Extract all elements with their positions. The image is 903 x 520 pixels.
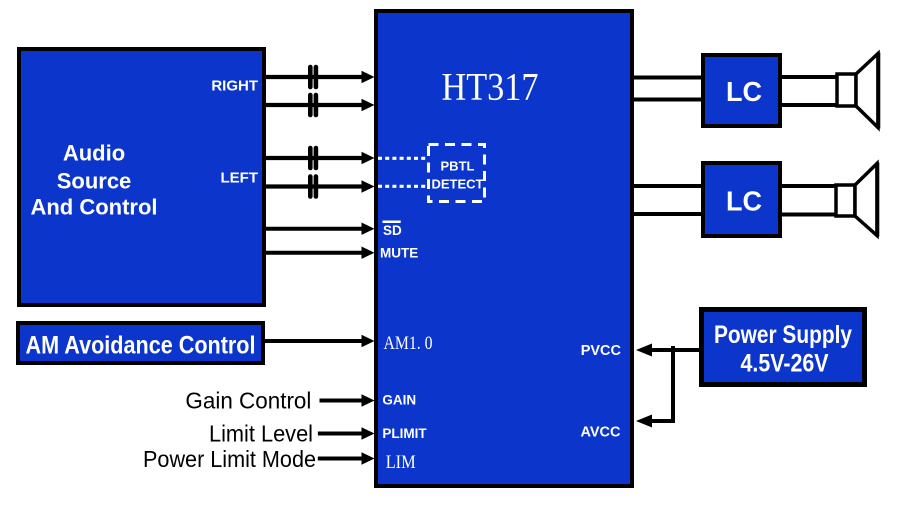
svg-text:AM Avoidance Control: AM Avoidance Control — [26, 332, 256, 360]
pin label MUTE — [380, 246, 418, 261]
block: PBTL DETECT dashed box — [429, 145, 485, 202]
pin label PVCC — [581, 343, 622, 359]
IC U1: HT317 amplifier block — [376, 11, 632, 486]
capacitor: LEFT lower input coupling cap — [310, 177, 316, 197]
wire: power limit mode to LIM pin — [318, 452, 375, 464]
wire: AM avoidance to AM1.0 pin — [263, 335, 375, 347]
svg-text:GAIN: GAIN — [382, 393, 416, 408]
label: Gain Control — [185, 388, 311, 414]
wire: LC2 to speaker upper — [781, 184, 836, 188]
wire: dotted link upper to PBTL detect — [378, 157, 427, 160]
svg-text:LEFT: LEFT — [221, 170, 259, 187]
svg-text:HT317: HT317 — [442, 66, 539, 109]
capacitor: RIGHT lower input coupling cap — [310, 95, 316, 115]
svg-text:DETECT: DETECT — [432, 177, 484, 192]
svg-text:AVCC: AVCC — [580, 425, 621, 441]
svg-text:SD: SD — [383, 223, 402, 238]
block: LC filter 2 — [703, 163, 780, 236]
speaker 2 — [836, 163, 877, 237]
svg-text:RIGHT: RIGHT — [211, 77, 258, 94]
wire: LC1 to speaker upper — [781, 75, 837, 79]
label LEFT — [221, 170, 259, 187]
svg-text:PLIMIT: PLIMIT — [382, 426, 427, 441]
wire: HT317 to LC2 upper — [632, 184, 703, 188]
wire: LEFT channel input upper — [264, 152, 375, 164]
svg-text:Limit Level: Limit Level — [209, 421, 313, 447]
svg-text:LIM: LIM — [386, 453, 416, 473]
pin label SD with overline — [383, 222, 403, 238]
pin label LIM — [386, 453, 416, 473]
capacitor: LEFT upper input coupling cap — [310, 148, 316, 168]
svg-text:PVCC: PVCC — [581, 343, 622, 359]
pin label AVCC — [580, 425, 621, 441]
wire: gain control to GAIN pin — [320, 394, 375, 406]
wire: RIGHT channel input lower — [264, 99, 375, 111]
svg-text:Power Supply: Power Supply — [714, 321, 852, 349]
wire: HT317 to LC2 lower — [632, 212, 703, 216]
wire: vertical branch PVCC to AVCC — [671, 346, 675, 421]
wire: RIGHT channel input upper — [264, 71, 375, 83]
wire: power supply to PVCC — [636, 344, 701, 357]
wire: MUTE control — [264, 247, 375, 259]
label: Power Limit Mode — [143, 446, 316, 472]
label: Limit Level — [209, 421, 313, 447]
svg-text:MUTE: MUTE — [380, 246, 418, 261]
wire: LC1 to speaker lower — [781, 103, 837, 107]
wire: HT317 to LC1 lower — [632, 98, 703, 102]
block: Power Supply 4.5V-26V — [702, 310, 865, 385]
svg-text:PBTL: PBTL — [441, 159, 475, 174]
label RIGHT — [211, 77, 258, 94]
svg-text:And Control: And Control — [30, 195, 157, 220]
wire: LEFT channel input lower — [264, 180, 375, 192]
block: LC filter 1 — [703, 55, 780, 126]
speaker 1 — [837, 53, 878, 129]
svg-text:AM1. 0: AM1. 0 — [384, 334, 433, 354]
pin label GAIN — [382, 393, 416, 408]
svg-text:Source: Source — [57, 169, 132, 194]
wire: HT317 to LC1 upper — [632, 76, 703, 80]
wire: branch to AVCC — [636, 415, 675, 428]
pin label AM1.0 — [384, 334, 433, 354]
svg-text:LC: LC — [726, 186, 762, 217]
wire: dotted link lower to PBTL detect — [378, 185, 427, 188]
svg-text:4.5V-26V: 4.5V-26V — [741, 350, 829, 378]
wire: SD control — [264, 223, 375, 235]
svg-text:Power Limit Mode: Power Limit Mode — [143, 446, 316, 472]
svg-text:Audio: Audio — [63, 141, 125, 166]
wire: LC2 to speaker lower — [781, 213, 836, 217]
block: Audio Source And Control — [19, 49, 264, 305]
svg-text:Gain Control: Gain Control — [185, 388, 311, 414]
block: AM Avoidance Control — [18, 323, 263, 363]
pin label PLIMIT — [382, 426, 427, 441]
wire: limit level to PLIMIT pin — [318, 427, 375, 439]
capacitor: RIGHT upper input coupling cap — [310, 67, 316, 87]
svg-text:LC: LC — [726, 76, 762, 107]
